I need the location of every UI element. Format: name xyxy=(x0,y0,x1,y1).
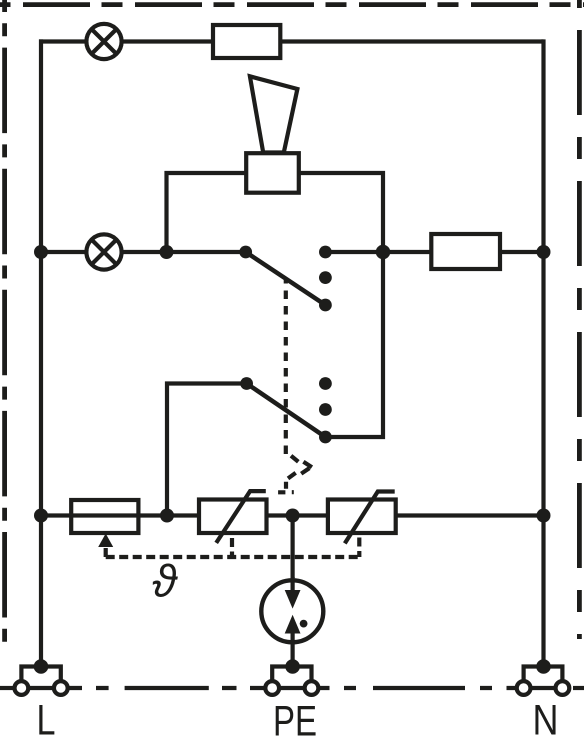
wire: top row y=41.5 from left rail to resistor R1 xyxy=(39,39,213,43)
resistor R2 xyxy=(431,234,500,269)
wire: row 4 from varistor RV2 to right rail xyxy=(395,513,544,517)
dashed thermal line down from arrow xyxy=(104,548,108,557)
dashed tick up to varistor RV2 xyxy=(357,538,361,558)
junction dot row4 left rail xyxy=(34,509,48,523)
dashed thermal line horizontal with theta xyxy=(106,555,360,559)
wire: toggle box right lead to inner vertical x=383 xyxy=(299,173,383,437)
switch S1 pivot dot xyxy=(239,246,252,259)
svg-text:PE: PE xyxy=(273,698,317,744)
switch S2 contact dot middle xyxy=(319,403,332,416)
linkage kink (disconnect flag) xyxy=(278,456,312,493)
thermal sensing arrow under fuse xyxy=(98,534,113,548)
enclosure top dashed border xyxy=(0,2,584,7)
junction dot row4 right rail xyxy=(537,509,551,523)
junction dot row2 left rail xyxy=(34,245,48,259)
dashed mechanical linkage from switches xyxy=(284,280,288,454)
svg-text:N: N xyxy=(533,698,559,744)
wire: toggle box left lead down to row 2 xyxy=(167,173,247,252)
enclosure bottom dashed border (right stub) xyxy=(573,686,584,690)
switch S1 contact dot top xyxy=(319,246,332,259)
switch S2 pivot dot xyxy=(240,377,253,390)
enclosure bottom dashed border (L to PE) xyxy=(69,686,266,690)
switch S1 contact dot bottom xyxy=(319,299,332,312)
wire: row 2 y=252 from left rail to switch pivot xyxy=(41,250,246,254)
wire: row 4 y=515.5 left rail through fuse region xyxy=(41,513,329,517)
dashed tick up to varistor RV1 xyxy=(230,538,234,556)
svg-text:L: L xyxy=(37,698,56,744)
terminal L bracket xyxy=(15,659,68,695)
resistor R1 top xyxy=(213,25,280,58)
GDT upper arrowhead (down) xyxy=(285,590,301,609)
switch S2 contact dot top xyxy=(319,377,332,390)
wire: right vertical N rail x=543.5 xyxy=(541,39,545,666)
terminal N bracket xyxy=(517,659,570,695)
GDT trigger dot xyxy=(300,620,308,628)
indicator lamp H1 (circle with X) top left xyxy=(86,24,121,59)
wire: lower switch pivot left and down to row 4 xyxy=(167,384,247,516)
wire: top row y=41.5 from R1 to right rail xyxy=(280,39,544,43)
GDT top arrow shaft xyxy=(291,577,295,590)
junction dot row2 right rail xyxy=(537,245,551,259)
junction dot row2 x=166.5 xyxy=(160,245,174,259)
terminal PE bracket xyxy=(265,659,318,695)
toggle switch body box xyxy=(246,153,299,193)
junction dot row4 center xyxy=(286,509,300,523)
GDT lower arrowhead (up) xyxy=(285,615,301,634)
enclosure right dashed border xyxy=(577,0,582,639)
junction dot row4 x=167 xyxy=(160,509,174,523)
gas discharge tube / spark gap circle xyxy=(261,580,323,642)
enclosure bottom dashed border (left stub) xyxy=(0,686,13,690)
switch S1 contact dot middle xyxy=(319,271,332,284)
junction dot x=383 row2 xyxy=(376,245,391,260)
switch S2 lower blade xyxy=(247,384,326,438)
fuse / thermal disconnector F1 xyxy=(71,500,138,533)
enclosure bottom dashed border (PE to N) xyxy=(317,686,517,690)
toggle switch actuator lever xyxy=(250,76,298,152)
switch S2 contact dot bottom xyxy=(319,431,332,444)
wire: center vertical down to gas discharge tube xyxy=(291,516,295,579)
enclosure left dashed border xyxy=(2,0,7,646)
wire: row 2 from top contact to resistor R2 xyxy=(325,250,431,254)
wire: R2 to right rail xyxy=(500,250,544,254)
indicator lamp H2 (circle with X) row 2 xyxy=(86,234,121,269)
varistor RV2 xyxy=(328,492,396,544)
varistor RV1 xyxy=(199,491,267,543)
GDT bottom arrow shaft to PE xyxy=(291,634,295,667)
svg-text:ϑ: ϑ xyxy=(152,555,178,606)
switch S1 upper blade xyxy=(246,252,326,305)
wire: left vertical L rail x=41 xyxy=(39,39,43,666)
